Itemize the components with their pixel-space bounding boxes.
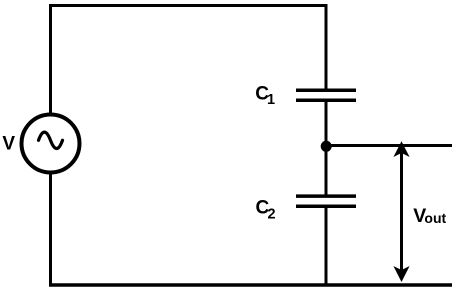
label C1: [255, 83, 275, 108]
wire: top horizontal: [49, 4, 328, 7]
wire: C1 to C2 through node: [325, 100, 328, 196]
svg-text:1: 1: [267, 92, 275, 108]
svg-text:out: out: [424, 210, 446, 226]
wire: left vertical upper segment: [49, 4, 52, 114]
capacitor C1: [296, 90, 356, 100]
wire: C2 to bottom: [325, 206, 328, 286]
wire: bottom horizontal: [49, 283, 452, 287]
wire: right branch from top to C1: [325, 4, 328, 90]
svg-text:V: V: [2, 134, 15, 155]
arrow Vout double-headed: [393, 141, 409, 282]
svg-text:2: 2: [268, 206, 276, 222]
voltage source V1: [22, 115, 80, 173]
capacitor C2: [296, 196, 356, 206]
wire: node to right output: [326, 144, 452, 147]
node: junction dot: [321, 141, 332, 152]
label C2: [256, 198, 276, 223]
wire: left vertical lower segment: [49, 173, 52, 287]
label Vout: [413, 205, 446, 227]
